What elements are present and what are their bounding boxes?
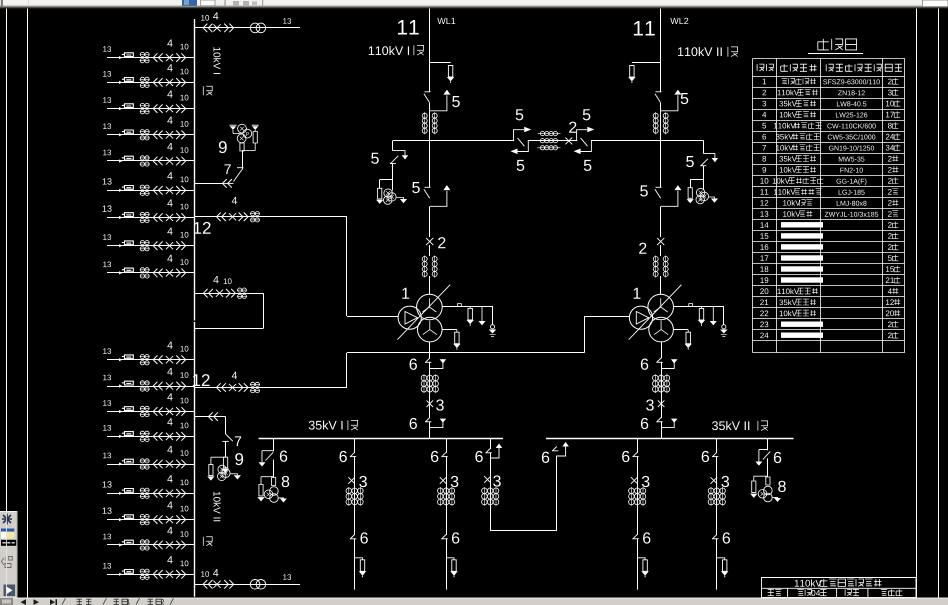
35kV tie right disconnector — [556, 447, 558, 450]
wire section coupler right drop — [263, 293, 265, 328]
label 13 top feeder — [283, 18, 291, 24]
title block name cell — [845, 589, 859, 595]
10kV section I feeder 9 — [107, 272, 195, 274]
bridge disconnector right — [577, 140, 591, 142]
wire station feeder bottom — [195, 584, 301, 586]
toolbar top white icon — [201, 0, 216, 6]
WL1 PT group — [378, 188, 382, 199]
T2 CT — [655, 256, 657, 278]
T1 35kV feeder — [429, 342, 431, 439]
10kV section I feeder 1 — [107, 57, 195, 59]
10kV section II feeder 4 — [107, 436, 195, 438]
bus 10kV section I — [194, 19, 196, 321]
station transformer T3 circles — [250, 23, 260, 33]
device table row 22 — [760, 310, 768, 316]
label 6 T1 upper — [410, 359, 417, 370]
10kV section II feeder 2 — [107, 386, 195, 388]
35kV I PT drop — [273, 438, 275, 477]
35kV I PT arm — [261, 477, 274, 485]
title block frame — [762, 578, 917, 598]
T1 neutral link — [442, 306, 492, 308]
wire T2 10kV horizontal — [584, 316, 629, 318]
title block class value — [798, 589, 812, 595]
PT group 9 bus I circles — [238, 124, 247, 133]
wire WL1 PT cluster stem — [392, 180, 394, 191]
bottom bar left icon — [0, 598, 13, 605]
T1 neutral ground — [492, 306, 494, 325]
35kV II PT fuse — [766, 477, 770, 485]
label 6 T2 upper — [641, 359, 648, 370]
bottom tab bar — [0, 598, 948, 605]
label 4 bottom feeder — [213, 569, 218, 576]
T2 neutral link — [674, 306, 724, 308]
label 5 WL1 disconnector — [452, 96, 460, 107]
label 6 35kV I PT — [280, 451, 287, 462]
35kV II PT drop — [767, 439, 769, 477]
wire WL2 PT jog — [690, 179, 704, 181]
WL2 surge arrester stub — [632, 62, 661, 64]
wire WL1 T1 drop — [429, 207, 431, 238]
T2 neutral earth arrow — [712, 306, 714, 321]
label 2 bridge — [569, 122, 576, 133]
wire T1 10kV riser — [346, 217, 348, 316]
left toolbar icon play — [4, 585, 16, 597]
label 3 35kV II feeder 2 — [721, 476, 729, 487]
wire WL2 PT stub — [703, 141, 705, 154]
T2 35kV arrester — [673, 329, 688, 331]
device table row 23 — [760, 322, 768, 328]
WL1 lower disconnector — [425, 186, 431, 188]
label 6 35kV tie left — [475, 451, 482, 462]
35kV I feeder 1 — [354, 439, 356, 590]
WL1 disconnector — [425, 91, 431, 93]
device table grid — [753, 59, 905, 353]
35kV tie CT — [483, 487, 485, 506]
frame line left inner — [27, 9, 29, 598]
label 2 T1 — [438, 237, 445, 248]
label 35kV I duan — [309, 420, 343, 429]
PT group 9 bus II arrester — [209, 465, 213, 476]
wire WL2 T2 drop — [660, 207, 662, 238]
label 10 coupler — [224, 278, 232, 284]
35kV II PT circles — [758, 490, 767, 499]
device table row 7 — [762, 145, 766, 151]
wire T1 10kV horizontal — [347, 316, 398, 318]
T1 CT — [424, 256, 426, 278]
coupler chevrons left — [203, 289, 212, 298]
wire T1 breaker to CT — [429, 245, 431, 256]
35kV II feeder 2 — [716, 439, 718, 590]
knife PT branch II — [225, 417, 227, 434]
coupler CT — [238, 288, 242, 292]
label 6 35kV I feeder 2 lower — [452, 532, 459, 543]
disconnector chevrons top feeder — [203, 24, 212, 33]
transformer T1 — [417, 294, 443, 320]
left toolbar frame line ghost — [5, 511, 7, 598]
WL2 lower disconnector — [656, 186, 662, 188]
10kV section II feeder 7 — [107, 519, 195, 521]
35kV tie breaker X — [484, 476, 491, 483]
label WL2 — [670, 18, 688, 24]
label 5 bridge left lower — [517, 160, 525, 171]
device table row 20 — [760, 288, 768, 294]
toolbar top left window edge — [1, 0, 3, 7]
breaker X bottom feeder — [213, 581, 220, 588]
label 11 WL1 — [398, 20, 419, 34]
label 12 lower — [193, 374, 210, 386]
wire PT branch bus II — [195, 416, 226, 418]
wire 12-line upper — [195, 216, 348, 218]
device table row 21 — [760, 299, 768, 305]
10kV section I feeder 2 — [107, 82, 195, 84]
device table row 16 — [760, 244, 768, 250]
12-line lower breaker X — [229, 384, 236, 391]
label 12 upper — [194, 222, 211, 234]
label 3 35kV II feeder 1 — [642, 476, 650, 487]
label 3 35kV I feeder 1 — [359, 476, 367, 487]
35kV tie right riser — [556, 456, 558, 531]
bus 10kV section II — [194, 322, 196, 597]
PT group 9 bus II — [224, 457, 228, 468]
label 7 bus II — [235, 436, 241, 446]
wire 12-line lower — [195, 387, 348, 389]
earthing chevrons PT branch I — [223, 179, 232, 188]
label 5 bridge left upper — [516, 109, 524, 120]
10kV section I feeder 4 — [107, 134, 195, 136]
35kV I PT disconnector — [273, 452, 275, 460]
label 4 12-line upper — [232, 197, 237, 204]
35kV II PT arm — [754, 476, 768, 481]
label 5 WL1 PT — [371, 153, 379, 164]
T1 neutral earth arrow — [481, 306, 483, 321]
wire WL1 line — [429, 9, 431, 92]
frame line right outer — [938, 9, 940, 598]
wire station feeder top — [195, 27, 301, 29]
35kV II PT disconnector — [767, 450, 769, 458]
35kV I feeder 2 — [446, 439, 448, 590]
title block class cell — [768, 589, 782, 595]
label 9 bus II — [235, 453, 243, 465]
label 6 35kV II feeder 1 lower — [643, 532, 650, 543]
device table title — [818, 39, 857, 50]
label 5 WL2 lower — [640, 185, 648, 196]
wire 12-line lower riser — [346, 353, 348, 388]
toolbar top right box — [923, 0, 948, 7]
label 10kV I duan (rotated) — [213, 47, 220, 74]
35kV II feeder 1 — [637, 439, 639, 590]
knife PT branch I — [234, 170, 243, 182]
disconnector chevrons bottom feeder — [203, 580, 212, 589]
device table row 17 — [760, 255, 768, 261]
label 110kV I duan — [369, 46, 409, 55]
bridge CT — [538, 133, 561, 135]
T2 neutral arrester — [701, 306, 703, 308]
10kV section II feeder 3 — [107, 411, 195, 413]
left toolbar icon swatch — [1, 529, 14, 532]
WL1 CT — [424, 112, 426, 134]
title block name value — [881, 589, 903, 595]
35kV tie left arm — [490, 448, 499, 458]
PT group 9 bus I fuse — [240, 143, 244, 151]
10kV section II feeder 5 — [107, 464, 195, 466]
label 1 T2 — [634, 288, 641, 299]
wire WL1 PT drop — [392, 141, 394, 151]
earthing chevrons PT branch II — [209, 412, 218, 421]
label 10kV II duan (rotated) — [213, 492, 220, 521]
coupler breaker X — [216, 290, 223, 297]
device table row 24 — [760, 333, 768, 339]
PT group 9 bus I arrows — [230, 124, 237, 126]
label 6 T1 lower — [410, 418, 417, 429]
wire WL1 bridge to disconnector — [429, 141, 431, 188]
35kV I PT arrester — [259, 485, 263, 496]
wire WL1 PT jog — [380, 179, 393, 181]
12-line upper chevrons left — [217, 213, 226, 222]
12-line lower chevrons left — [217, 383, 226, 392]
device table row 11 — [760, 189, 768, 195]
wire T2 10kV riser — [584, 316, 586, 352]
label 5 WL1 lower — [412, 182, 420, 193]
frame line right inner — [916, 9, 918, 598]
left toolbar tooltip — [1, 540, 16, 546]
device table row 5 — [762, 123, 766, 129]
wire section coupler return — [195, 328, 264, 330]
label 6 35kV II feeder 2 upper — [702, 451, 709, 462]
station transformer T4 circles — [250, 580, 260, 590]
wire WL2 bridge to disconnector — [660, 141, 662, 188]
wire WL1 to bridge — [429, 133, 431, 141]
bus 35kV section II — [546, 438, 794, 440]
label 3 T2 — [646, 399, 654, 410]
wire PT branch bus I — [195, 183, 223, 185]
PT group 9 bus I bottom link — [242, 150, 255, 152]
wire section coupler upper — [195, 293, 264, 295]
label 9 bus I — [219, 141, 227, 153]
PT group 9 bus II arm — [211, 457, 226, 464]
bridge disconnector left — [514, 140, 528, 142]
10kV section II feeder 6 — [107, 493, 195, 495]
T2 neutral ground — [723, 306, 725, 325]
label 10 top feeder — [201, 15, 209, 21]
T1 neutral arrester — [469, 306, 471, 308]
toolbar top blue icon — [182, 0, 197, 6]
label 6 35kV I feeder 2 upper — [431, 451, 438, 462]
35kV I PT fuse — [272, 478, 276, 486]
12-line lower chevrons right — [239, 383, 248, 392]
label 11 WL2 — [634, 21, 655, 35]
label 2 T2 — [639, 243, 646, 254]
label 6 35kV I feeder 1 upper — [339, 451, 346, 462]
label 6 35kV II feeder 2 lower — [723, 532, 730, 543]
bus 35kV section I — [259, 438, 503, 440]
device table row 15 — [760, 233, 768, 239]
WL1 surge arrester stub — [430, 62, 451, 64]
label 7 bus I — [224, 164, 230, 174]
device table row 4 — [762, 112, 766, 118]
device table row 18 — [760, 266, 768, 272]
35kV II PT right arm — [772, 496, 777, 499]
toolbar top small glyphs — [233, 1, 239, 5]
35kV II PT arrester — [752, 481, 756, 492]
12-line upper breaker X — [229, 213, 236, 220]
bridge breaker X — [565, 138, 572, 145]
wire T2 CT to transformer — [660, 276, 662, 294]
35kV tie left drop — [490, 438, 492, 530]
wire 35kV tie bottom — [490, 530, 557, 532]
label 3 35kV I feeder 2 — [451, 476, 459, 487]
left toolbar strip — [0, 511, 18, 598]
10kV section I feeder 7 — [107, 217, 195, 219]
label 35kV II duan — [712, 421, 749, 430]
device table header — [757, 64, 773, 71]
tab nav buttons — [21, 599, 27, 605]
tab labels — [62, 598, 66, 604]
label 6 35kV I feeder 1 lower — [360, 532, 367, 543]
device table row 12 — [760, 200, 768, 206]
10kV section I feeder 6 — [107, 190, 195, 192]
12-line upper chevrons right — [239, 213, 248, 222]
wire 110kV bridge — [393, 140, 704, 142]
T2 35kV feeder — [661, 342, 663, 439]
device table row 9 — [762, 167, 766, 173]
label 3 35kV tie — [493, 475, 501, 486]
35kV tie right arm — [557, 447, 566, 457]
10kV section I feeder 3 — [107, 108, 195, 110]
T1 35kV arrester — [442, 329, 457, 331]
transformer T2 — [648, 294, 674, 320]
label 13 bottom feeder — [283, 574, 291, 580]
label 3 T1 — [436, 399, 444, 410]
device table row 3 — [762, 101, 766, 107]
WL2 disconnector — [656, 91, 662, 93]
label 4 12-line lower — [232, 372, 237, 379]
T2 breaker X — [657, 238, 664, 245]
label 110kV II duan — [678, 47, 722, 56]
label 4 top feeder — [213, 12, 218, 19]
10kV section I feeder 5 — [107, 160, 195, 162]
device table row 1 — [763, 79, 766, 85]
device table row 8 — [762, 156, 766, 162]
breaker X top feeder — [213, 24, 220, 31]
wire 10kV interconnect — [347, 352, 584, 354]
toolbar strip top — [0, 0, 948, 8]
device table row 2 — [762, 90, 766, 96]
left toolbar icon star — [2, 514, 12, 525]
label 1 T1 — [402, 288, 409, 299]
label 5 bridge right upper — [583, 109, 591, 120]
wire WL2 line — [660, 9, 662, 92]
35kV tie left disconnector — [489, 449, 491, 452]
label 5 WL2 disconnector — [681, 93, 689, 104]
label 5 bridge right lower — [584, 160, 592, 171]
label 6 35kV tie right — [542, 452, 549, 463]
WL2 CT — [655, 112, 657, 134]
wire T2 breaker to CT — [660, 245, 662, 256]
35kV I PT right arm — [278, 497, 283, 500]
wire WL2 to bridge — [660, 133, 662, 141]
device table row 19 — [760, 277, 768, 283]
label 4 coupler — [213, 276, 218, 283]
WL2 PT group — [688, 188, 692, 199]
35kV I PT circles — [264, 490, 273, 499]
WL1 PT disconnector — [393, 151, 405, 156]
label 5 WL2 PT — [686, 156, 694, 167]
label 6 T2 lower — [641, 418, 648, 429]
device table row 6 — [762, 134, 766, 140]
label 6 35kV II PT — [774, 452, 781, 463]
12-line lower CT — [251, 382, 255, 386]
disconnector chevrons right top feeder — [224, 24, 233, 33]
10kV section II feeder 1 — [107, 359, 195, 361]
WL2 PT disconnector — [704, 154, 715, 158]
wire T1 CT to transformer — [429, 276, 431, 294]
toolbar top separator — [225, 0, 226, 7]
frame line left outer — [6, 9, 8, 512]
10kV section II feeder 8 — [107, 544, 195, 546]
left toolbar icon gauge — [1, 557, 12, 568]
title block drawing name — [795, 579, 822, 586]
disconnector chevrons right bottom feeder — [224, 580, 233, 589]
label 8 35kV II PT — [778, 481, 786, 492]
device table row 14 — [760, 222, 768, 228]
T1 breaker X — [426, 238, 433, 245]
10kV section II feeder 9 — [107, 574, 195, 576]
label 10 bottom feeder — [201, 571, 209, 577]
PT group 9 bus I link — [233, 133, 242, 135]
PT group 9 bus I arrester — [253, 132, 257, 144]
device table row 10 — [760, 178, 768, 184]
wire WL2 PT cluster stem — [703, 179, 705, 190]
10kV section I feeder 8 — [107, 245, 195, 247]
device table row 13 — [760, 211, 768, 217]
12-line upper CT — [251, 212, 255, 216]
label 8 35kV I PT — [282, 476, 290, 487]
coupler chevrons right — [226, 289, 235, 298]
label WL1 — [437, 18, 455, 24]
label 6 35kV II feeder 1 upper — [622, 451, 629, 462]
